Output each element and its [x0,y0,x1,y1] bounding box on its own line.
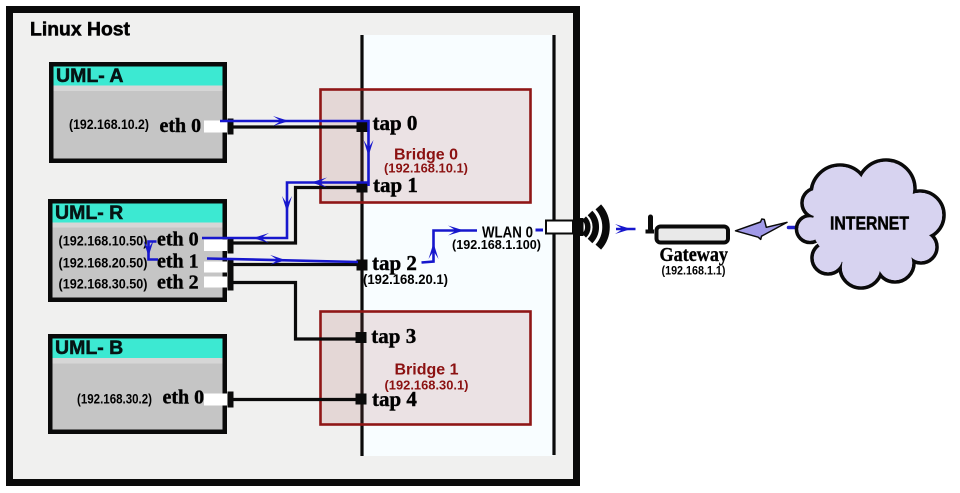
UML-A eth0 port [204,121,227,133]
wifi arcs [584,207,606,247]
wire UML-R eth2 to tap3 (black) [231,283,356,340]
blue flow tap1 to UML-R eth0 [202,183,369,239]
blue flow UML-A eth0 to tap0 to tap1 [220,121,369,186]
UML-A box [49,62,227,163]
node tap0 [357,121,368,132]
host box (Linux Host outer rectangle) [10,10,577,483]
gateway antenna [648,215,653,232]
svg-text:eth 1: eth 1 [157,251,199,273]
blue flow tap2 to WLAN0 [422,231,478,263]
wire UML-A eth0 to tap0 (black) [230,125,362,128]
blue arrow wifi to gateway [616,228,636,231]
UML-B eth0 port [204,394,227,406]
svg-text:(192.168.10.50): (192.168.10.50) [59,233,148,248]
node tap2 [357,260,368,271]
vertical line left [360,35,363,456]
UML-R box [48,199,227,302]
UML-R eth2 port [204,277,227,288]
svg-text:(192.168.1.100): (192.168.1.100) [452,237,541,252]
svg-text:Bridge 1: Bridge 1 [394,362,458,379]
svg-text:eth 2: eth 2 [157,272,199,294]
svg-text:UML- R: UML- R [55,202,123,224]
svg-text:Linux Host: Linux Host [30,20,131,41]
internet cloud [797,160,945,288]
WLAN port on host border [546,221,573,234]
svg-text:(192.168.30.50): (192.168.30.50) [59,277,148,292]
svg-text:tap 3: tap 3 [371,324,416,348]
svg-text:(192.168.1.1): (192.168.1.1) [662,264,726,278]
svg-text:UML- A: UML- A [56,65,124,87]
svg-text:eth 0: eth 0 [160,115,202,137]
svg-text:eth 0: eth 0 [163,387,205,409]
svg-text:(192.168.10.2): (192.168.10.2) [69,117,149,132]
node tap3 [356,332,367,343]
UML-R eth0 port [204,240,227,252]
blue routing hook inside UML-R (eth0 to eth1) [149,242,159,260]
wire tap1 to UML-R eth0 (black) [231,188,362,244]
blue flow UML-R eth1 to tap2 [207,259,358,263]
wire UML-B eth0 to tap4 (black) [231,398,356,401]
svg-text:tap 1: tap 1 [373,173,418,197]
svg-text:eth 0: eth 0 [157,228,199,250]
bridge 1 box [321,312,531,425]
svg-text:tap 4: tap 4 [372,387,417,411]
wire UML-R eth1 to tap2 (black) [231,263,362,266]
bridge 0 box [321,90,531,203]
blue dash after WLAN 0 label [536,229,544,232]
UML-B box [48,334,227,434]
node tap4 [356,394,367,405]
svg-text:(192.168.20.50): (192.168.20.50) [59,256,148,271]
svg-text:(192.168.20.1): (192.168.20.1) [363,272,448,287]
svg-text:INTERNET: INTERNET [830,214,909,234]
svg-text:(192.168.30.2): (192.168.30.2) [77,392,152,407]
svg-text:tap 0: tap 0 [373,111,418,135]
vertical line right [552,35,555,455]
UML-R eth1 port [204,262,227,273]
svg-text:UML- B: UML- B [55,337,123,359]
gateway box [657,227,729,243]
node tap1 [357,182,368,193]
lightning bolt gateway to internet [736,219,788,239]
blue dash before cloud [789,226,796,230]
tap zone (azure area between the two vertical lines) [362,35,553,456]
